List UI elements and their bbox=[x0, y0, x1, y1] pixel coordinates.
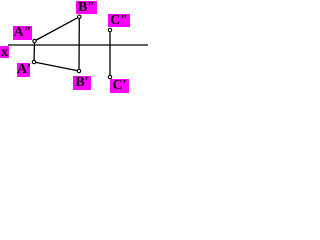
label C' bbox=[110, 79, 129, 93]
point B' bbox=[77, 69, 80, 72]
segment A''B'' bbox=[35, 17, 80, 41]
segment B''B' bbox=[78, 17, 80, 71]
label A'' bbox=[13, 26, 32, 40]
point C'' bbox=[108, 28, 111, 31]
point A' bbox=[32, 60, 35, 63]
segment C''C' bbox=[109, 30, 111, 77]
segment A''A' bbox=[33, 41, 36, 62]
point A'' bbox=[33, 39, 36, 42]
label B'' bbox=[76, 1, 97, 14]
segment A'B' bbox=[34, 62, 79, 71]
label A' bbox=[17, 63, 30, 77]
label x bbox=[0, 46, 9, 58]
point B'' bbox=[78, 15, 81, 18]
label B' bbox=[73, 76, 91, 90]
label C'' bbox=[108, 14, 130, 27]
point C' bbox=[108, 75, 111, 78]
x-axis bbox=[8, 44, 148, 46]
